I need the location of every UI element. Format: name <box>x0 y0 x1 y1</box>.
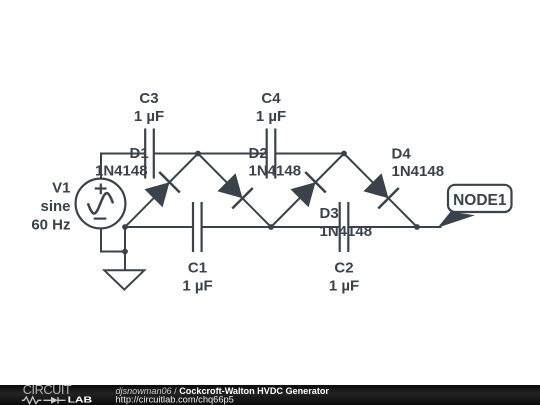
svg-text:D4: D4 <box>392 145 412 162</box>
svg-text:C2: C2 <box>334 260 353 277</box>
capacitor C1 <box>193 202 202 252</box>
svg-text:NODE1: NODE1 <box>453 192 507 209</box>
svg-text:60 Hz: 60 Hz <box>31 216 70 233</box>
svg-text:D1: D1 <box>130 145 149 162</box>
svg-text:C4: C4 <box>261 90 281 107</box>
voltage source V1 <box>76 179 126 229</box>
diode D1 <box>144 172 179 207</box>
node junction dot A <box>122 224 128 230</box>
svg-text:1N4148: 1N4148 <box>95 163 148 180</box>
svg-text:1 µF: 1 µF <box>329 278 359 295</box>
node junction dot B <box>195 151 201 157</box>
diode D2 <box>217 173 252 208</box>
diode D4 <box>363 173 398 208</box>
CircuitLab logo resistor zigzag and diode glyph <box>22 397 66 404</box>
svg-text:sine: sine <box>40 198 70 215</box>
node NODE1 flag box <box>448 185 512 212</box>
capacitor C2 <box>340 202 349 252</box>
node junction dot D <box>341 151 347 157</box>
svg-text:1N4148: 1N4148 <box>320 223 373 240</box>
wire bottom rail middle segment <box>202 226 340 228</box>
svg-text:V1: V1 <box>52 179 70 196</box>
wire diagonal node C to node D <box>271 154 344 228</box>
svg-text:D2: D2 <box>249 145 268 162</box>
wire bottom rail left segment <box>125 226 193 228</box>
node junction dot E <box>414 224 420 230</box>
svg-text:CIRCUIT: CIRCUIT <box>23 382 72 397</box>
svg-text:1 µF: 1 µF <box>256 108 286 125</box>
svg-text:http://circuitlab.com/chq66p5: http://circuitlab.com/chq66p5 <box>116 394 234 404</box>
svg-text:LAB: LAB <box>68 396 93 405</box>
capacitor C3 <box>145 129 154 179</box>
svg-text:1 µF: 1 µF <box>182 278 212 295</box>
node NODE1 flag pointer <box>438 212 476 228</box>
wire bottom rail right segment <box>348 226 441 228</box>
wire V1 top riser to top rail <box>101 154 145 179</box>
wire diagonal node A to node B <box>125 154 198 228</box>
svg-text:1N4148: 1N4148 <box>249 163 302 180</box>
svg-text:D3: D3 <box>320 205 339 222</box>
node junction dot C <box>268 224 274 230</box>
wire junction riser to bottom rail <box>124 227 126 252</box>
svg-text:1 µF: 1 µF <box>134 108 164 125</box>
wire diagonal node B to node C <box>198 154 271 228</box>
svg-text:C1: C1 <box>188 260 207 277</box>
svg-text:C3: C3 <box>139 90 158 107</box>
wire diagonal node D to node E <box>344 154 417 228</box>
wire V1 bottom to ground junction <box>101 228 125 251</box>
svg-text:1N4148: 1N4148 <box>392 163 445 180</box>
node junction dot ground tee <box>122 249 128 255</box>
capacitor C4 <box>267 129 276 179</box>
ground <box>104 270 144 289</box>
wire top rail middle segment <box>154 153 267 155</box>
wire junction to ground symbol <box>124 252 126 271</box>
wire top rail right segment <box>275 153 344 155</box>
diode D3 <box>290 172 325 207</box>
